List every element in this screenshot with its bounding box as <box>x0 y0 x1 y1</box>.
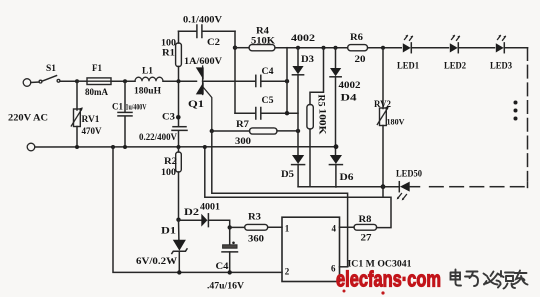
svg-text:RV1: RV1 <box>82 114 101 124</box>
wire AC bottom rail <box>35 146 336 148</box>
svg-text:300: 300 <box>235 136 252 146</box>
svg-text:0.1/400V: 0.1/400V <box>183 15 223 25</box>
inductor L1 <box>134 66 163 96</box>
svg-text:100: 100 <box>161 167 177 177</box>
svg-text:100K: 100K <box>318 109 328 135</box>
svg-text:220V AC: 220V AC <box>8 113 48 123</box>
svg-text:360: 360 <box>248 234 265 244</box>
svg-text:4001: 4001 <box>200 202 221 212</box>
svg-text:elecfans·com: elecfans·com <box>336 267 441 292</box>
node D3 top <box>296 46 300 50</box>
wire pin 6 stub <box>340 266 348 268</box>
svg-text:D3: D3 <box>301 54 315 64</box>
node bridge AC2 on rail <box>334 144 339 149</box>
varistor RV1 <box>71 81 102 147</box>
svg-text:470V: 470V <box>82 126 103 136</box>
svg-text:R2: R2 <box>164 156 178 166</box>
diode D6 <box>329 155 354 187</box>
svg-text:20: 20 <box>355 54 367 64</box>
svg-text:6V/0.2W: 6V/0.2W <box>136 256 177 266</box>
svg-text:C3: C3 <box>162 112 176 122</box>
svg-text:LED1: LED1 <box>397 61 419 71</box>
resistor R6 <box>348 32 402 64</box>
node Q1 gate / R7 junction <box>210 129 214 133</box>
svg-text:R1: R1 <box>162 48 176 58</box>
node RV1 bottom <box>75 145 79 149</box>
dashed wire right vertical <box>527 48 529 188</box>
node R5 top branch <box>322 46 326 50</box>
svg-text:RV2: RV2 <box>374 99 391 109</box>
wire gate net (Q1 gate to MOC pin6 riser) <box>212 131 348 267</box>
ellipsis dots LED string <box>514 101 518 121</box>
node D4 top <box>334 46 338 50</box>
wire F1 to L1 <box>111 80 135 82</box>
svg-text:C4: C4 <box>262 66 275 76</box>
fuse F1 <box>77 63 111 97</box>
LED50 <box>396 169 422 201</box>
svg-text:4002: 4002 <box>291 33 316 43</box>
wire vertical x235 (C2 corner down to C5) <box>234 31 236 113</box>
node D1 bottom <box>177 270 181 274</box>
svg-text:R8: R8 <box>359 214 373 224</box>
node C1 bottom <box>123 145 127 149</box>
dashed wire bottom horizontal <box>430 186 524 188</box>
svg-text:L1: L1 <box>142 66 154 76</box>
node rail branch top <box>203 145 207 149</box>
wire AC rail branch to R8 right <box>205 147 391 228</box>
op-to-triac IC1 MOC3041 box <box>282 217 340 281</box>
svg-text:100: 100 <box>161 38 177 48</box>
LED1 <box>397 35 419 71</box>
node RV2 top <box>381 46 385 50</box>
svg-text:C5: C5 <box>262 95 275 105</box>
capacitor C4 (electrolytic lower) <box>207 227 245 290</box>
svg-text:R4: R4 <box>256 26 270 36</box>
node C4 right <box>285 79 289 83</box>
svg-text:180uH: 180uH <box>134 86 161 96</box>
svg-text:D6: D6 <box>340 172 355 182</box>
svg-text:510K: 510K <box>251 36 275 46</box>
svg-text:D2: D2 <box>184 207 200 217</box>
svg-text:S1: S1 <box>46 63 57 73</box>
resistor R1 <box>161 31 181 81</box>
svg-text:2: 2 <box>285 267 290 277</box>
terminal input bottom (220V AC line 2) <box>27 143 35 151</box>
resistor R4 <box>235 26 348 51</box>
watermark elecfans.com <box>336 267 441 295</box>
svg-text:R6: R6 <box>350 32 364 42</box>
wire RV2 stub down to W197 <box>382 187 384 198</box>
varistor RV2 <box>374 48 405 187</box>
node: S1/F1/RV1 junction <box>75 79 79 83</box>
svg-text:F1: F1 <box>92 63 102 73</box>
diode D2 <box>179 202 230 228</box>
resistor R5 <box>307 48 328 187</box>
diode D5 <box>281 155 305 187</box>
svg-text:R5: R5 <box>317 95 327 108</box>
terminal input top (220V AC line 1) <box>23 79 39 87</box>
wire vertical x287 (R4 right down to C5 wire) <box>286 48 288 114</box>
resistor R2 <box>161 147 181 220</box>
node: C1 top junction <box>123 79 127 83</box>
wire LED2 to LED3 <box>458 47 494 49</box>
node R7 right on bridge line <box>296 129 300 133</box>
resistor R3 <box>230 212 282 244</box>
svg-text:.47u/16V: .47u/16V <box>207 281 245 291</box>
svg-text:80mA: 80mA <box>85 87 108 97</box>
switch S1 <box>39 63 77 83</box>
wire LED3 to corner <box>504 47 527 49</box>
wire pin 4 to R8 <box>340 226 355 228</box>
capacitor C5 <box>235 95 298 119</box>
node R1 bottom on rail <box>177 79 181 83</box>
node C4 top / R3 junction <box>228 225 232 229</box>
capacitor C2 <box>179 15 236 48</box>
capacitor C4 (upper) <box>256 66 287 87</box>
LED3 <box>490 35 512 71</box>
capacitor C3 <box>139 81 187 147</box>
LED2 <box>444 35 466 71</box>
node left drop junction <box>111 145 115 149</box>
svg-text:LED2: LED2 <box>444 61 466 71</box>
watermark chinese 电子发烧友 <box>451 270 528 289</box>
diode D4 <box>330 48 361 156</box>
wire LED1 to LED2 <box>411 47 448 49</box>
svg-text:D1: D1 <box>161 226 177 236</box>
diode D3 <box>292 48 314 156</box>
node R2 bottom / D1 / D2 junction <box>176 218 180 222</box>
node R4 left <box>233 46 237 50</box>
svg-text:C2: C2 <box>207 37 221 47</box>
capacitor C1 <box>112 81 147 147</box>
svg-text:LED3: LED3 <box>490 61 512 71</box>
svg-text:D4: D4 <box>341 93 358 103</box>
svg-text:C4: C4 <box>216 261 230 271</box>
svg-text:27: 27 <box>361 233 373 243</box>
wire L1 to Q1 <box>163 80 197 82</box>
svg-text:4002: 4002 <box>339 80 362 90</box>
node RV2 bottom / R8 branch <box>381 184 386 189</box>
zener diode D1 <box>136 220 187 273</box>
node C4 bottom <box>228 270 232 274</box>
svg-text:R3: R3 <box>248 212 262 222</box>
triac Q1 <box>184 56 223 131</box>
svg-text:Q1: Q1 <box>188 99 205 109</box>
svg-text:LED50: LED50 <box>396 169 422 179</box>
node C5 right on bridge line <box>285 111 289 115</box>
wire Q1 to C4 <box>203 80 256 82</box>
svg-text:4: 4 <box>332 224 337 234</box>
svg-text:1: 1 <box>285 224 290 234</box>
svg-text:180V: 180V <box>387 118 405 127</box>
svg-text:R7: R7 <box>236 119 250 129</box>
resistor R7 <box>212 119 298 146</box>
svg-text:0.22/400V: 0.22/400V <box>139 132 177 142</box>
wire left drop (rail to bottom rail) <box>113 147 282 272</box>
svg-text:C1: C1 <box>112 102 123 112</box>
node C3 bottom on rail <box>177 145 181 149</box>
wire bridge bottom to LED50 <box>298 186 399 188</box>
resistor R8 <box>354 214 377 243</box>
svg-text:D5: D5 <box>281 169 295 179</box>
svg-text:1u/400V: 1u/400V <box>126 103 147 112</box>
svg-text:1A/600V: 1A/600V <box>184 56 223 66</box>
